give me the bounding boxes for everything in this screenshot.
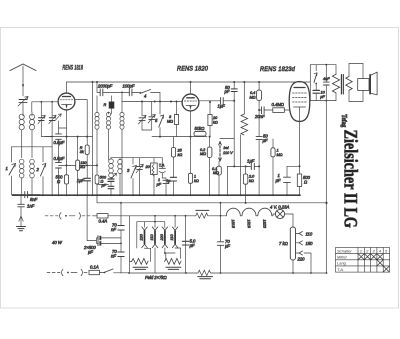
node y166 det (287, 165, 300, 167)
cap 0.5uF lower (54, 146, 65, 168)
plug tap 110 a (150, 216, 158, 273)
switch 2 (36, 147, 46, 195)
resistor dark 0.1M (104, 96, 115, 114)
wire to lamp (272, 214, 276, 216)
cap 50uF psu (182, 239, 196, 248)
ballast resistor 7k (279, 227, 296, 273)
svg-text:kΩ: kΩ (178, 153, 183, 157)
svg-text:220: 220 (140, 233, 144, 241)
node grid line tube1 (32, 102, 58, 112)
transformer inner link (137, 222, 165, 248)
svg-text:µF: µF (320, 95, 325, 99)
node link top coils (11, 146, 52, 148)
junction dots bus1 (21, 194, 301, 196)
svg-text:µF: µF (157, 183, 162, 187)
svg-text:µF: µF (88, 250, 93, 255)
junction rail x97 (96, 81, 98, 83)
plug tap 220 a (140, 222, 151, 262)
resistor 0.4M vertical (250, 81, 262, 110)
wire cap chain to bus (58, 168, 60, 195)
svg-text:220: 220 (160, 233, 164, 241)
svg-text:Mittel: Mittel (337, 255, 347, 260)
switch 4 (140, 90, 160, 102)
bus B+ lower (97, 195, 327, 203)
svg-text:T.A.: T.A. (337, 267, 344, 272)
svg-text:MΩ: MΩ (167, 120, 173, 124)
svg-text:1µF: 1µF (77, 178, 85, 183)
cap 50pF top (224, 81, 238, 102)
cap 70nF lower (111, 249, 124, 273)
coil L8 lower (109, 158, 114, 179)
resistor 1k cathode V2 (188, 173, 198, 183)
trimmer cap C mid2 (142, 102, 155, 131)
resistor 0.4M grid stopper (272, 102, 290, 112)
svg-text:Feld 2×7kΩ: Feld 2×7kΩ (145, 275, 168, 280)
mains transformer frame right (185, 216, 187, 273)
rail output bottom (310, 100, 336, 102)
svg-text:20nF: 20nF (254, 114, 265, 119)
svg-text:nF: nF (111, 227, 116, 232)
svg-text:110: 110 (150, 234, 154, 241)
svg-text:nF: nF (111, 254, 116, 259)
svg-text:0.5µF: 0.5µF (54, 140, 65, 145)
svg-text:MΩ: MΩ (250, 96, 256, 100)
field coil upper zigzag (195, 210, 209, 218)
svg-text:0.4A: 0.4A (99, 219, 108, 224)
cap 0.1uF (102, 179, 115, 195)
tube V2 RENS 1820 (182, 81, 199, 195)
node line y136 left (45, 136, 93, 138)
svg-text:150: 150 (306, 241, 314, 246)
cap 4nF output (323, 64, 330, 102)
tube V1 RENS 1818 (58, 82, 75, 195)
resistor 3M (167, 101, 179, 137)
svg-text:1818: 1818 (231, 219, 235, 228)
tap 150 (296, 241, 314, 246)
svg-text:1nF: 1nF (27, 204, 35, 209)
rail top B+ (67, 81, 311, 83)
heater bump 1823 (256, 208, 272, 229)
coil L6 (106, 112, 110, 160)
svg-text:4nF: 4nF (323, 77, 330, 81)
svg-text:µF: µF (263, 138, 268, 143)
wire AF drop x234.2 (233, 101, 235, 167)
series cap 5nF in bus (12, 192, 40, 202)
svg-text:100pF: 100pF (123, 84, 135, 89)
svg-text:kΩ: kΩ (194, 179, 199, 183)
heater winding 1 (130, 248, 151, 269)
secondary loop wires (349, 64, 363, 102)
plug tap 220 b (160, 227, 175, 258)
cap 2000pF (97, 82, 122, 96)
trimmer cap lower (136, 158, 143, 196)
svg-text:RENS 1820: RENS 1820 (177, 65, 208, 72)
junction dots y136 and y165 (66, 136, 99, 167)
fuse 0.1A (89, 265, 104, 275)
wire arrow top link (220, 138, 234, 140)
resistor 0.1M (212, 161, 221, 194)
wire lamp to ballast (285, 214, 293, 227)
svg-text:20: 20 (145, 165, 151, 169)
svg-text:MΩ: MΩ (277, 153, 283, 157)
junction dots y101.5 (141, 101, 172, 103)
tap 110 (296, 232, 313, 237)
svg-text:0.5µF: 0.5µF (54, 156, 65, 161)
cap 1uF AF horizontal (227, 159, 259, 195)
resistor 500 ohm cathode (297, 166, 310, 194)
coil L5 (95, 96, 99, 171)
svg-text:µF: µF (102, 184, 107, 188)
resistor 25k (171, 137, 182, 178)
svg-text:0.4MΩ: 0.4MΩ (272, 102, 285, 107)
grid wire tube2 (181, 102, 183, 103)
resistor 1M det (271, 139, 283, 195)
coil L4 lower (30, 147, 35, 195)
svg-text:Zielsicher II LG: Zielsicher II LG (339, 130, 359, 229)
cap 20nF (254, 107, 273, 119)
lamp 4V 0.23A (270, 205, 289, 219)
cap 100pF (122, 84, 140, 96)
tap 220 (292, 251, 312, 274)
svg-text:kΩ: kΩ (213, 121, 218, 125)
cap 1uF stage1 (77, 178, 91, 195)
svg-text:25: 25 (177, 149, 183, 153)
svg-text:µF: µF (190, 243, 195, 248)
svg-text:0.1A: 0.1A (90, 265, 99, 270)
node line y136 mid (152, 136, 207, 138)
svg-text:pF: pF (224, 89, 230, 94)
node y136 junctions (159, 136, 192, 138)
resistor 500 ohm screen (95, 171, 108, 195)
cap 0.5uF upper (54, 114, 67, 146)
svg-text:1819: 1819 (247, 219, 251, 228)
resistor 20k (208, 101, 218, 137)
grid coil L2 (29, 112, 34, 147)
resistor Rg 3k (80, 137, 89, 179)
resistor 50k horizontal (194, 126, 206, 136)
svg-text:1: 1 (6, 166, 8, 171)
cap 70nF left (111, 202, 124, 252)
resistor 500 ohm cathode V1 (56, 175, 69, 185)
table switch chart (336, 248, 390, 273)
bus chassis (thick ground bus) (12, 194, 300, 196)
svg-text:Schalter: Schalter (337, 248, 352, 253)
transformer T1 primary (332, 65, 339, 101)
dashed mains cord lower (47, 269, 89, 276)
svg-text:µF: µF (276, 178, 281, 183)
wire anode tube2 (199, 100, 221, 102)
cap 1nF to ground (18, 195, 35, 216)
rail output top (310, 64, 336, 66)
ground (17, 216, 26, 231)
mains switch (104, 269, 129, 273)
svg-text:Lang: Lang (337, 261, 347, 266)
tap arrow coil L8 (112, 173, 117, 178)
svg-text:7 kΩ: 7 kΩ (279, 241, 289, 246)
switch 3 (127, 158, 136, 196)
cap 1uF cathode V1 (166, 177, 177, 195)
svg-text:2.0: 2.0 (248, 175, 255, 179)
potentiometer zigzag (240, 114, 247, 195)
switch 1 (6, 147, 16, 195)
svg-text:1: 1 (277, 149, 279, 153)
cap 1uF coupling (218, 98, 235, 109)
wire x244 vertical pot feed (243, 82, 245, 114)
svg-text:bei: bei (224, 146, 229, 150)
transformer T1 secondary (346, 76, 352, 90)
svg-text:4 V. 0.23A: 4 V. 0.23A (270, 205, 289, 210)
variable capacitor antenna trimmer (18, 97, 28, 115)
svg-text:Tefag: Tefag (340, 114, 348, 127)
speaker (358, 72, 377, 95)
heater winding 2 (165, 248, 182, 270)
arrow bei 110V (218, 142, 233, 162)
grid trimmer C 2 (49, 101, 56, 195)
bus heater/mains bottom (130, 272, 327, 274)
svg-text:20: 20 (212, 116, 218, 120)
plug tap 110 b (170, 216, 178, 253)
svg-text:1: 1 (158, 178, 160, 182)
jack T.A. (159, 158, 166, 181)
svg-text:MΩ: MΩ (213, 171, 219, 175)
svg-text:110: 110 (306, 232, 313, 237)
svg-text:T.A: T.A (159, 164, 165, 168)
resistor 2.0k (243, 165, 255, 204)
heater bump 1818 (226, 208, 240, 229)
resistor 0.2M (200, 136, 212, 195)
svg-text:220: 220 (297, 257, 306, 262)
svg-text:1823: 1823 (262, 219, 266, 228)
svg-text:40 W: 40 W (52, 240, 63, 245)
cap 70uF heater (217, 202, 230, 274)
wire right B+ drop (325, 101, 327, 273)
svg-text:1µF: 1µF (247, 159, 255, 164)
node line y165.4 (59, 164, 98, 166)
svg-text:1µF: 1µF (218, 104, 226, 109)
svg-text:50kΩ: 50kΩ (195, 126, 206, 131)
svg-text:RENS 1818: RENS 1818 (63, 65, 84, 72)
antenna (10, 64, 36, 96)
node line y101.5 mid (122, 101, 182, 103)
svg-text:MΩ: MΩ (200, 152, 206, 156)
fuse 0.4A (94, 214, 129, 224)
svg-text:RENS 1823d: RENS 1823d (260, 66, 295, 73)
cap 1uF TA (157, 178, 170, 195)
field coil lower zigzag (197, 270, 213, 279)
heater line to bumps (209, 215, 226, 217)
electrolytic 2x500uF (83, 236, 122, 255)
resistor 180k (76, 137, 88, 196)
mains transformer frame left (129, 216, 131, 273)
cap 50uF (256, 109, 268, 195)
svg-text:kΩ: kΩ (249, 179, 254, 183)
switch 6 output (314, 65, 317, 91)
svg-text:1: 1 (194, 175, 196, 179)
junction dots bottom bus (128, 272, 327, 274)
wire output left vertical (309, 65, 311, 101)
svg-text:5nF: 5nF (30, 197, 38, 202)
wire screen drop x92.5 (92, 82, 94, 195)
antenna coil L1 (19, 114, 24, 147)
tube V3 RENS 1823d output (289, 82, 310, 167)
coil L7 (120, 92, 124, 195)
svg-text:R: R (104, 103, 107, 107)
coil L9 lower (118, 158, 123, 196)
heater bump 1819 (240, 208, 256, 229)
svg-text:0.4: 0.4 (250, 91, 255, 95)
svg-text:2000pF: 2000pF (97, 84, 113, 89)
node link y157.7 lower (111, 157, 162, 159)
trimmer cap C mid1 (138, 102, 146, 131)
svg-text:110: 110 (170, 234, 174, 241)
wire anode tube1 to coupling (75, 100, 87, 137)
heater line left (130, 215, 196, 217)
coil L3 lower (19, 147, 24, 195)
cap 10uF output (313, 90, 326, 100)
transformer T1 core (341, 75, 343, 95)
cap 1uF cathode (276, 166, 291, 194)
dashed mains link upper (45, 213, 97, 220)
svg-text:1: 1 (360, 248, 362, 253)
svg-text:µF: µF (225, 243, 230, 248)
grid trimmer C 1 (38, 101, 52, 137)
pickup boxed coil (145, 158, 158, 196)
wire x86 drop (86, 195, 88, 241)
junction bus2 right (325, 202, 327, 204)
svg-text:110 V: 110 V (223, 151, 233, 155)
switch 5 (155, 102, 164, 137)
